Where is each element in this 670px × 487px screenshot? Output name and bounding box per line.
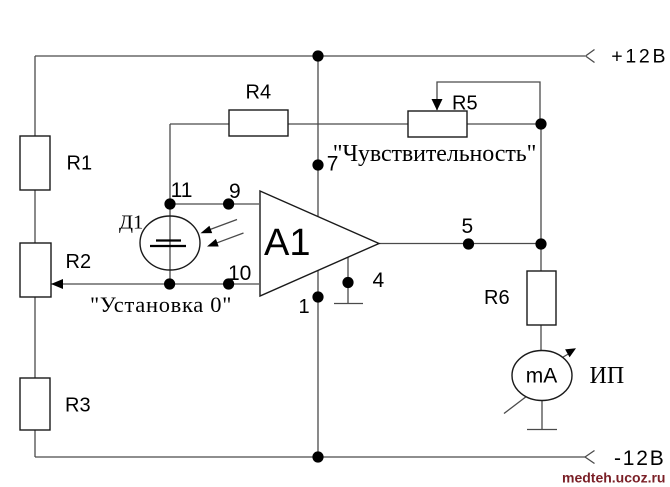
- svg-text:medteh.ucoz.ru: medteh.ucoz.ru: [562, 470, 665, 486]
- svg-text:R1: R1: [67, 153, 93, 175]
- svg-text:R2: R2: [66, 251, 92, 273]
- svg-text:R6: R6: [484, 287, 510, 309]
- svg-text:R5: R5: [452, 92, 478, 114]
- svg-text:4: 4: [373, 269, 385, 292]
- svg-text:5: 5: [462, 215, 474, 238]
- svg-text:R4: R4: [246, 82, 272, 104]
- svg-text:A1: A1: [264, 222, 310, 264]
- svg-text:9: 9: [229, 180, 241, 203]
- svg-text:+12В: +12В: [611, 46, 668, 68]
- svg-text:"Чувствительность": "Чувствительность": [333, 141, 537, 167]
- svg-text:-12В: -12В: [614, 447, 666, 470]
- svg-text:Д1: Д1: [119, 212, 143, 234]
- svg-text:10: 10: [228, 262, 251, 285]
- svg-text:11: 11: [171, 179, 193, 202]
- svg-text:1: 1: [299, 296, 310, 318]
- svg-text:mA: mA: [526, 365, 558, 388]
- svg-text:"Установка 0": "Установка 0": [90, 292, 232, 317]
- svg-text:R3: R3: [65, 395, 91, 417]
- svg-text:ИП: ИП: [590, 363, 625, 389]
